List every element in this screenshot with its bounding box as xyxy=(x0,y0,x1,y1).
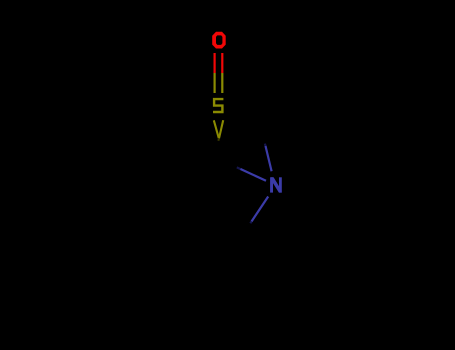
bond S-C left arm (olive half) xyxy=(214,120,219,138)
double bond S=O, sulfur half (olive), line 1 xyxy=(214,73,216,93)
bond S-C right arm (olive half) xyxy=(219,120,223,139)
double bond S=O, oxygen half (red), line 1 xyxy=(214,53,216,73)
bond C-N vertical carbon-side faint tail xyxy=(264,144,267,147)
bond S-C carbon-side faint tip xyxy=(218,138,220,141)
atom N (nitrogen label) xyxy=(270,177,282,192)
double bond S=O, oxygen half (red), line 2 xyxy=(221,53,223,73)
atom S (sulfur label) xyxy=(213,99,223,112)
bond C-N upper-left (nitrogen half, blue) xyxy=(241,169,267,181)
bond N-C lower-left carbon-side faint tip xyxy=(250,222,251,224)
bond C-N vertical (nitrogen half, blue) xyxy=(266,146,272,171)
double bond S=O, sulfur half (olive), line 2 xyxy=(221,73,223,93)
atom O (oxygen label) xyxy=(212,32,226,49)
bond C-N upper-left carbon-side faint tail xyxy=(237,167,241,169)
bond N-C lower-left (nitrogen half, blue) xyxy=(252,197,269,222)
